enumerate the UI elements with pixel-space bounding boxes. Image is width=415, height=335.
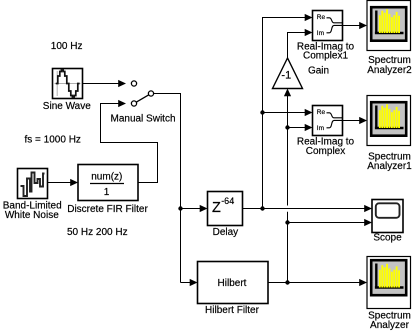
block Spectrum Analyzer1 — [367, 96, 412, 172]
svg-text:Manual Switch: Manual Switch — [110, 113, 175, 124]
block Real-Imag to Complex1 — [297, 11, 355, 62]
block Delay — [208, 192, 243, 238]
node junction delay output — [260, 206, 264, 210]
wire Sine Wave to Manual Switch top input — [83, 80, 127, 87]
svg-text:Complex: Complex — [306, 146, 345, 157]
block Band-Limited White Noise — [3, 169, 62, 221]
svg-text:White Noise: White Noise — [5, 210, 59, 221]
svg-text:Re: Re — [317, 14, 326, 21]
node junction switch line to delay — [178, 206, 182, 210]
wire Delay output to Scope and Re inputs — [243, 14, 373, 212]
wire Band-Limited White Noise to Discrete FIR Filter — [48, 179, 79, 186]
svg-text:Analyzer1: Analyzer1 — [367, 161, 412, 172]
svg-text:-64: -64 — [221, 196, 234, 206]
svg-text:Discrete FIR Filter: Discrete FIR Filter — [67, 204, 148, 215]
svg-text:50 Hz 200 Hz: 50 Hz 200 Hz — [67, 227, 128, 238]
wire Discrete FIR Filter to Manual Switch lower input — [101, 100, 158, 183]
svg-text:Hilbert Filter: Hilbert Filter — [205, 305, 260, 316]
block Sine Wave — [43, 69, 91, 113]
svg-text:Re: Re — [317, 109, 326, 116]
svg-text:Complex1: Complex1 — [303, 51, 348, 62]
block Spectrum Analyzer — [367, 257, 411, 331]
svg-text:num(z): num(z) — [91, 172, 122, 183]
wire Real-Imag to Complex to Spectrum Analyzer1 — [343, 117, 368, 124]
svg-text:fs = 1000 Hz: fs = 1000 Hz — [25, 134, 81, 145]
node junction riser to Re input — [260, 110, 264, 114]
node junction to Im input — [285, 125, 289, 129]
block Real-Imag to Complex — [297, 106, 355, 158]
wire Real-Imag to Complex1 to Spectrum Analyzer2 — [343, 22, 368, 29]
svg-text:Im: Im — [317, 30, 324, 37]
svg-text:Analyzer: Analyzer — [370, 320, 410, 331]
svg-text:Z: Z — [212, 200, 221, 216]
block Scope — [372, 200, 403, 244]
svg-text:Hilbert: Hilbert — [218, 278, 247, 289]
svg-text:Im: Im — [317, 125, 324, 132]
svg-text:100 Hz: 100 Hz — [51, 41, 83, 52]
node junction to scope second input — [285, 220, 289, 224]
node junction hilbert output — [285, 280, 289, 284]
wire Hilbert output to Spectrum Analyzer, Scope, Im input and Gain — [268, 89, 372, 287]
block Hilbert Filter — [198, 262, 269, 317]
block Spectrum Analyzer2 — [367, 1, 412, 76]
wire Manual Switch output to Delay and Hilbert Filter — [154, 94, 208, 287]
block Gain — [273, 58, 330, 89]
svg-text:Scope: Scope — [373, 233, 402, 244]
block Discrete FIR Filter — [67, 165, 148, 215]
block Manual Switch — [110, 81, 175, 125]
svg-text:-1: -1 — [281, 70, 291, 82]
svg-text:Analyzer2: Analyzer2 — [367, 65, 412, 76]
svg-text:Gain: Gain — [308, 66, 329, 77]
svg-text:1: 1 — [104, 187, 110, 198]
wire Gain output to Im of Real-Imag to Complex1 — [288, 29, 313, 58]
svg-text:Delay: Delay — [213, 227, 239, 238]
svg-text:Sine Wave: Sine Wave — [43, 101, 91, 112]
